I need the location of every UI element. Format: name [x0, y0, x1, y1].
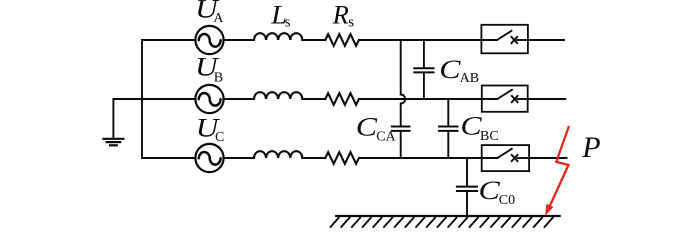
svg-text:B: B — [214, 70, 223, 85]
svg-text:C: C — [479, 177, 501, 206]
svg-text:C: C — [460, 112, 482, 141]
svg-text:P: P — [581, 131, 600, 164]
svg-text:CA: CA — [376, 129, 396, 144]
svg-text:A: A — [213, 11, 224, 26]
svg-text:C: C — [356, 113, 378, 142]
svg-text:s: s — [348, 14, 354, 30]
svg-text:C: C — [215, 130, 224, 145]
svg-text:C0: C0 — [499, 193, 515, 208]
svg-text:AB: AB — [460, 71, 479, 86]
svg-text:R: R — [332, 0, 349, 30]
svg-text:s: s — [285, 14, 291, 30]
svg-text:BC: BC — [480, 129, 499, 144]
svg-text:C: C — [439, 55, 461, 84]
